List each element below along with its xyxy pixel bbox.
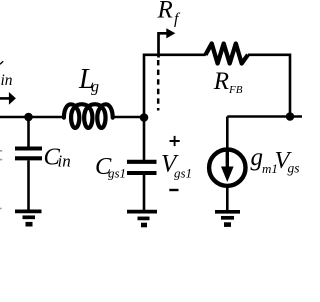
svg-text:in: in (1, 72, 13, 89)
svg-text:R: R (157, 0, 173, 24)
svg-text:g: g (91, 79, 99, 96)
svg-text:gs1: gs1 (174, 166, 192, 181)
svg-text:gs1: gs1 (108, 166, 126, 181)
svg-text:R: R (213, 68, 229, 95)
svg-text:FB: FB (228, 84, 243, 96)
svg-text:in: in (58, 152, 71, 171)
svg-text:gs: gs (288, 161, 300, 176)
